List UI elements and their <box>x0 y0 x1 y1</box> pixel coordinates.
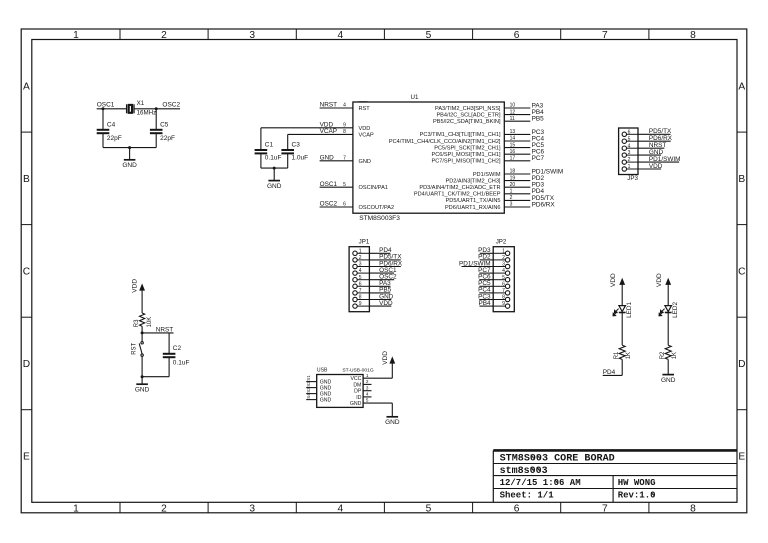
wire C4 to bottom rail <box>102 133 104 147</box>
node PC4 at U1 pin 14 <box>532 135 545 142</box>
node PD4 at JP1 pin 1 <box>379 247 392 254</box>
svg-text:DM: DM <box>353 382 361 388</box>
svg-text:VCC: VCC <box>350 376 361 382</box>
svg-text:13: 13 <box>510 129 516 135</box>
wire JP1 pin 4 to net OSC1 <box>357 272 369 274</box>
JP2 pin 2 circle <box>505 258 509 262</box>
svg-text:4: 4 <box>337 30 343 41</box>
wire JP3 pin 6 to net PD5/TX <box>627 133 639 135</box>
JP1 pin 4 circle <box>353 271 357 275</box>
node PD1/SWIM at JP3 pin 2 <box>649 156 681 163</box>
USB shield pin S4 <box>306 393 332 404</box>
svg-text:2: 2 <box>161 30 167 41</box>
node PB4 at U1 pin 12 <box>532 109 545 116</box>
JP1 pin 3 circle <box>353 264 357 268</box>
wire U1 pin 18 stub right <box>504 173 530 175</box>
JP2 pin 7 circle <box>505 291 509 295</box>
JP2 pin 5 circle <box>505 278 509 282</box>
JP1 pin 6 circle <box>353 284 357 288</box>
wire VDD to LED2 <box>667 284 669 305</box>
JP1 pin number 4 <box>359 268 362 274</box>
USB pin number 1 <box>366 373 369 378</box>
svg-text:4: 4 <box>343 103 346 109</box>
U1 pin name VDD <box>359 126 371 132</box>
JP1 pin number 8 <box>359 295 362 301</box>
svg-text:VCAP: VCAP <box>359 132 375 138</box>
title sheet Sheet: 1/1 <box>500 491 555 501</box>
svg-text:R3: R3 <box>134 319 140 327</box>
svg-text:0.1uF: 0.1uF <box>265 154 282 161</box>
node VDD at JP3 pin 1 <box>649 163 663 170</box>
svg-text:22pF: 22pF <box>107 135 122 142</box>
JP1 pin 5 circle <box>353 278 357 282</box>
svg-text:0.1uF: 0.1uF <box>173 359 190 366</box>
frame row ticks left <box>21 132 32 410</box>
title text STM8S003 CORE BORAD <box>500 454 615 465</box>
node PC7 at U1 pin 17 <box>532 155 545 162</box>
svg-text:1K: 1K <box>626 352 632 359</box>
node OSC2 at JP1 pin 5 <box>379 274 397 281</box>
svg-text:ID: ID <box>356 395 361 401</box>
frame row ticks right <box>737 132 747 410</box>
JP2 pin number 8 <box>502 295 505 301</box>
U1 pin 9 VDD label <box>320 121 347 128</box>
wire C2 to bottom rail <box>168 357 170 377</box>
JP2 pin 4 circle <box>505 271 509 275</box>
junction reset gnd node <box>141 375 144 378</box>
svg-text:3: 3 <box>366 385 369 390</box>
svg-text:GND: GND <box>350 401 362 407</box>
node PD5/TX at JP3 pin 6 <box>649 128 672 135</box>
svg-text:C4: C4 <box>107 122 116 129</box>
ground (LED2) <box>661 375 676 384</box>
svg-text:D: D <box>23 359 30 370</box>
svg-text:16: 16 <box>510 149 516 155</box>
svg-text:17: 17 <box>510 156 516 162</box>
wire JP3 pin 3 to net GND <box>627 154 639 156</box>
wire VDD net: C1 top to U1 pin 9 <box>261 127 353 129</box>
svg-text:PD6/RX: PD6/RX <box>532 201 556 208</box>
svg-text:R1: R1 <box>614 351 620 359</box>
wire JP2 pin 7 to net PC4 <box>493 292 505 294</box>
node NRST at JP3 pin 4 <box>649 142 666 149</box>
svg-text:7: 7 <box>602 30 608 41</box>
wire R3 to NRST node <box>141 326 143 333</box>
svg-text:1: 1 <box>73 30 79 41</box>
JP1 pin number 7 <box>359 288 362 294</box>
U1 pin number 20 <box>510 182 516 188</box>
svg-text:5: 5 <box>426 503 432 514</box>
wire JP1 pin 1 to net PD4 <box>357 252 369 254</box>
node PB5 at JP1 pin 7 <box>379 287 392 294</box>
node PA3 at JP1 pin 6 <box>379 280 391 287</box>
wire U1 pin 19 stub right <box>504 180 530 182</box>
wire JP3 pin 4 to net NRST <box>627 147 639 149</box>
U1 pin number 14 <box>510 136 516 142</box>
svg-text:PC7/SPI_MISO[TIM1_CH2]: PC7/SPI_MISO[TIM1_CH2] <box>431 159 500 165</box>
svg-text:19: 19 <box>510 175 516 181</box>
wire USB VCC to VDD <box>391 364 393 379</box>
frame inner border <box>32 40 737 503</box>
svg-text:VDD: VDD <box>656 273 663 287</box>
wire to ground (reset) <box>141 377 143 385</box>
node PC3 at JP2 pin 8 <box>478 293 491 300</box>
wire U1 pin 14 stub right <box>504 140 530 142</box>
wire U1 pin 15 stub right <box>504 147 530 149</box>
ground (reset) <box>135 384 150 393</box>
svg-text:6: 6 <box>514 503 520 514</box>
svg-text:OSC2: OSC2 <box>320 201 338 208</box>
U1 pin name PD4/UART1_CK/TIM2_CH1/BEEP <box>414 192 501 198</box>
node GND at U1 pin 7 <box>320 154 347 161</box>
wire VCAP net: C3 top to U1 pin 8 <box>288 133 353 135</box>
node PD3 at JP2 pin 1 <box>478 247 491 254</box>
svg-text:PB5: PB5 <box>532 116 545 123</box>
capacitor C1 0.1uF <box>255 141 282 161</box>
JP2 pin 9 circle <box>505 304 509 308</box>
svg-text:VDD: VDD <box>610 273 617 287</box>
svg-text:GND: GND <box>135 386 150 393</box>
node PD5/TX at U1 pin 2 <box>532 195 555 202</box>
svg-text:RST: RST <box>131 342 137 354</box>
JP1 pin number 5 <box>359 275 362 281</box>
junction OSC2/C5 <box>155 107 158 110</box>
svg-text:VDD: VDD <box>359 126 371 132</box>
JP2 pin 1 circle <box>505 251 509 255</box>
svg-text:PB5/I2C_SDA[TIM1_BKIN]: PB5/I2C_SDA[TIM1_BKIN] <box>433 119 501 125</box>
connector JP1 outline <box>349 239 370 312</box>
wire LED2 to R2 <box>667 313 669 346</box>
JP3 pin 2 circle <box>622 160 626 164</box>
svg-text:PC7: PC7 <box>532 155 545 162</box>
svg-text:PD1/SWIM: PD1/SWIM <box>473 172 501 178</box>
svg-text:PC6/SPI_MOSI[TIM1_CH1]: PC6/SPI_MOSI[TIM1_CH1] <box>431 152 500 158</box>
wire to ground (decoupling) <box>273 168 275 181</box>
svg-text:HW WONG: HW WONG <box>618 478 656 488</box>
wire JP1 pin 5 to net OSC2 <box>357 279 369 281</box>
wire JP1 pin 7 to net PB5 <box>357 292 369 294</box>
node PC3 at U1 pin 13 <box>532 129 545 136</box>
node PC6 at JP2 pin 5 <box>478 274 491 281</box>
svg-text:VCAP: VCAP <box>320 128 337 135</box>
junction gnd rail <box>273 167 276 170</box>
USB pin name ID <box>356 395 361 401</box>
JP1 pin number 2 <box>359 255 362 261</box>
svg-text:PB4/I2C_SCL[ADC_ETR]: PB4/I2C_SCL[ADC_ETR] <box>436 112 500 118</box>
JP2 pin number 4 <box>502 268 505 274</box>
node NRST (net label) <box>156 327 173 334</box>
svg-text:22pF: 22pF <box>160 135 175 142</box>
wire JP2 pin 8 to net PC3 <box>493 299 505 301</box>
JP2 pin 3 circle <box>505 264 509 268</box>
wire C3 to gnd rail <box>287 153 289 168</box>
capacitor C5 22pF <box>150 122 175 142</box>
U1 pin name GND <box>359 159 371 165</box>
svg-text:3: 3 <box>510 202 513 208</box>
wire JP2 pin 1 to net PD3 <box>493 252 505 254</box>
svg-text:C3: C3 <box>292 141 301 148</box>
svg-text:LED2: LED2 <box>672 301 679 317</box>
node PD3 at U1 pin 20 <box>532 182 545 189</box>
capacitor C2 0.1uF <box>163 345 190 366</box>
JP2 pin number 7 <box>502 288 505 294</box>
U1 pin name PC6/SPI_MOSI[TIM1_CH1] <box>431 152 500 158</box>
U1 pin number 2 <box>510 195 513 201</box>
JP2 pin number 5 <box>502 275 505 281</box>
wire U1 pin 11 stub right <box>504 120 530 122</box>
svg-text:GND: GND <box>267 183 282 190</box>
svg-text:ST-USB-001G: ST-USB-001G <box>342 367 373 373</box>
svg-text:A: A <box>738 81 745 92</box>
svg-text:VDD: VDD <box>132 279 139 293</box>
USB shield pin S1 <box>306 375 332 386</box>
svg-text:GND: GND <box>649 149 664 156</box>
svg-text:PD3/AIN4/TIM2_CH2/ADC_ETR: PD3/AIN4/TIM2_CH2/ADC_ETR <box>419 185 500 191</box>
svg-text:20: 20 <box>510 182 516 188</box>
node PD6/RX at JP1 pin 3 <box>379 260 403 267</box>
svg-text:OSC1: OSC1 <box>320 181 338 188</box>
junction OSC1/C4 <box>102 107 105 110</box>
wire U1 pin 1 stub right <box>504 193 530 195</box>
frame column ticks bottom <box>120 502 649 513</box>
title text stm8s003 <box>500 466 548 477</box>
USB shield pin S3 <box>306 387 332 398</box>
svg-text:PD6/RX: PD6/RX <box>649 135 673 142</box>
wire JP2 pin 2 to net PD2 <box>493 259 505 261</box>
wire U1 pin 17 stub right <box>504 160 530 162</box>
svg-text:12/7/15 1:06 AM: 12/7/15 1:06 AM <box>500 478 581 488</box>
svg-text:OSC1: OSC1 <box>97 102 115 109</box>
svg-text:GND: GND <box>359 159 371 165</box>
JP3 pin 5 circle <box>622 139 626 143</box>
ground (crystal) <box>122 160 137 169</box>
JP2 pin number 1 <box>502 248 505 254</box>
wire U1 pin 7 net GND <box>320 160 353 162</box>
node PC7 at JP2 pin 4 <box>478 267 491 274</box>
U1 pin name PC7/SPI_MISO[TIM1_CH2] <box>431 159 500 165</box>
wire JP1 pin 3 to net PD6/RX <box>357 266 369 268</box>
node PC5 at U1 pin 15 <box>532 142 545 149</box>
node PD4 at U1 pin 1 <box>532 188 545 195</box>
svg-text:PB4: PB4 <box>479 300 492 307</box>
wire NRST node to C2 <box>142 332 173 334</box>
svg-text:18: 18 <box>510 169 516 175</box>
USB pin 2 DM stub <box>363 383 371 385</box>
node PC5 at JP2 pin 6 <box>478 280 491 287</box>
svg-text:11: 11 <box>510 116 515 122</box>
node OSC1 (net label) <box>97 102 115 109</box>
connector JP3 outline <box>619 128 639 182</box>
svg-text:RST: RST <box>359 106 371 112</box>
USB pin number 5 <box>366 398 369 403</box>
JP2 pin number 2 <box>502 255 505 261</box>
JP3 pin number 6 <box>628 129 631 135</box>
svg-text:15: 15 <box>510 142 516 148</box>
svg-text:PD6/UART1_RX/AIN6: PD6/UART1_RX/AIN6 <box>445 205 501 211</box>
wire VDD to LED1 <box>621 284 623 305</box>
U1 pin name PC5/SPI_SCK[TIM2_CH1] <box>434 145 501 151</box>
svg-text:Rev:1.0: Rev:1.0 <box>618 491 656 501</box>
wire bottom rail C4-C5 <box>103 147 156 149</box>
svg-text:U1: U1 <box>411 94 419 101</box>
wire crystal to OSC2 <box>134 108 156 110</box>
svg-text:A: A <box>23 81 30 92</box>
wire U1 pin 12 stub right <box>504 114 530 116</box>
wire JP2 pin 4 to net PC7 <box>493 272 505 274</box>
wire USB GND down <box>391 403 393 417</box>
svg-text:VDD: VDD <box>649 163 663 170</box>
svg-text:1: 1 <box>73 503 79 514</box>
node PD6/RX at JP3 pin 5 <box>649 135 673 142</box>
USB pin 3 DP stub <box>363 390 371 392</box>
svg-text:JP2: JP2 <box>496 239 507 246</box>
svg-text:PD2/AIN3[TIM2_CH3]: PD2/AIN3[TIM2_CH3] <box>445 178 500 184</box>
svg-text:E: E <box>23 452 30 463</box>
JP3 pin number 5 <box>628 136 631 142</box>
U1 pin name RST <box>359 102 371 112</box>
crystal X1 16MHz <box>127 100 157 116</box>
LED LED1 <box>613 301 633 317</box>
USB pin name GND <box>350 401 362 407</box>
svg-text:C: C <box>23 267 30 278</box>
power VDD (reset) <box>132 279 145 293</box>
junction NRST node <box>141 331 144 334</box>
JP1 pin 9 circle <box>353 304 357 308</box>
U1 pin name PA3/TIM2_CH3[SPI_NSS] <box>435 106 501 112</box>
node GND at JP1 pin 8 <box>379 293 394 300</box>
svg-text:USB: USB <box>317 367 328 373</box>
JP3 pin 6 circle <box>622 132 626 136</box>
wire JP3 pin 1 to net VDD <box>627 168 639 170</box>
frame column ticks top <box>120 29 649 40</box>
JP3 pin 1 circle <box>622 167 626 171</box>
node PD5/TX at JP1 pin 2 <box>379 254 402 261</box>
U1 pin number 16 <box>510 149 516 155</box>
svg-text:PD5/UART1_TX/AIN5: PD5/UART1_TX/AIN5 <box>446 198 501 204</box>
JP3 pin number 4 <box>628 143 631 149</box>
U1 pin name PD1/SWIM <box>473 172 501 178</box>
capacitor C3 1.0uF <box>281 141 308 161</box>
U1 pin name VCAP <box>359 132 375 138</box>
svg-text:5: 5 <box>366 398 369 403</box>
ground (decoupling) <box>267 181 282 190</box>
JP3 pin number 1 <box>628 164 631 170</box>
U1 pin 8 VCAP label <box>320 128 347 135</box>
svg-text:5: 5 <box>426 30 432 41</box>
svg-text:OSCOUT/PA2: OSCOUT/PA2 <box>359 205 395 211</box>
U1 pin number 12 <box>510 109 516 115</box>
U1 pin name PD5/UART1_TX/AIN5 <box>446 198 501 204</box>
connector JP2 outline <box>493 239 514 312</box>
connector USB ST-USB-001G outline <box>317 367 374 407</box>
U1 pin number 13 <box>510 129 516 135</box>
svg-text:S1: S1 <box>306 375 311 381</box>
svg-text:GND: GND <box>320 154 335 161</box>
power VDD (LED2) <box>656 273 671 287</box>
svg-text:C1: C1 <box>265 141 274 148</box>
svg-text:2: 2 <box>366 379 369 384</box>
svg-text:12: 12 <box>510 109 516 115</box>
wire JP2 pin 3 to net PD1/SWIM <box>493 266 505 268</box>
resistor R2 1K <box>660 345 678 359</box>
switch S1 RST <box>131 333 143 377</box>
wire JP2 pin 9 to net PB4 <box>493 305 505 307</box>
svg-text:9: 9 <box>343 123 346 129</box>
U1 pin number 11 <box>510 116 515 122</box>
JP3 pin number 2 <box>628 157 631 163</box>
svg-text:4: 4 <box>337 503 343 514</box>
U1 pin name OSCOUT/PA2 <box>359 205 395 211</box>
USB pin number 3 <box>366 385 369 390</box>
node OSC1 at JP1 pin 4 <box>379 267 397 274</box>
node PD1/SWIM at U1 pin 18 <box>532 168 564 175</box>
U1 pin number 18 <box>510 169 516 175</box>
U1 pin name PD6/UART1_RX/AIN6 <box>445 205 501 211</box>
U1 pin number 10 <box>510 103 516 109</box>
node PD6/RX at U1 pin 3 <box>532 201 556 208</box>
JP1 pin number 1 <box>359 248 362 254</box>
svg-text:E: E <box>738 452 745 463</box>
wire JP3 pin 5 to net PD6/RX <box>627 140 639 142</box>
title block outline <box>493 450 737 502</box>
title date 12/7/15 1:06 AM <box>500 478 581 488</box>
JP2 pin number 6 <box>502 281 505 287</box>
wire OSC2 down to C5 <box>155 109 157 130</box>
JP1 pin 8 circle <box>353 297 357 301</box>
svg-text:D: D <box>738 359 745 370</box>
USB pin number 2 <box>366 379 369 384</box>
svg-text:NRST: NRST <box>320 102 337 109</box>
wire JP1 pin 6 to net PA3 <box>357 285 369 287</box>
svg-text:GND: GND <box>661 377 676 384</box>
wire U1 pin 10 stub right <box>504 107 530 109</box>
svg-text:10: 10 <box>510 103 516 109</box>
node PD4 (net label) <box>603 369 616 376</box>
USB pin 5 GND stub <box>363 402 392 404</box>
svg-text:14: 14 <box>510 136 516 142</box>
svg-text:8: 8 <box>343 129 346 135</box>
wire U1 pin 3 stub right <box>504 206 530 208</box>
svg-text:R2: R2 <box>660 351 666 359</box>
svg-text:1: 1 <box>366 373 369 378</box>
svg-text:OSC2: OSC2 <box>162 102 180 109</box>
JP1 pin number 9 <box>359 301 362 307</box>
svg-text:10K: 10K <box>147 317 153 328</box>
U1 pin number 17 <box>510 156 516 162</box>
svg-text:8: 8 <box>690 503 696 514</box>
wire to ground (crystal) <box>129 148 131 160</box>
JP1 pin number 3 <box>359 262 362 268</box>
svg-text:S2: S2 <box>306 381 311 387</box>
svg-text:B: B <box>738 174 745 185</box>
wire R2 to ground <box>667 359 669 374</box>
LED LED2 <box>659 301 679 317</box>
wire U1 pin 16 stub right <box>504 153 530 155</box>
wire U1 pin 4 net NRST <box>320 107 353 109</box>
wire U1 pin 2 stub right <box>504 199 530 201</box>
JP3 pin 3 circle <box>622 153 626 157</box>
title author HW WONG <box>618 478 656 488</box>
title rev Rev:1.0 <box>618 491 656 501</box>
svg-text:X1: X1 <box>137 100 145 107</box>
node PB4 at JP2 pin 9 <box>479 300 492 307</box>
svg-text:6: 6 <box>514 30 520 41</box>
svg-text:DP: DP <box>354 389 362 395</box>
USB shield pin S2 <box>306 381 332 392</box>
wire gnd rail C1-C3 <box>261 167 288 169</box>
svg-text:JP1: JP1 <box>359 239 370 246</box>
wire JP2 pin 5 to net PC6 <box>493 279 505 281</box>
